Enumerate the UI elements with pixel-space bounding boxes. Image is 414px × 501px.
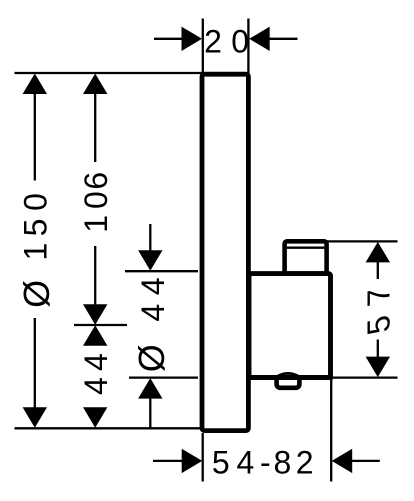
dimension 54-82 [153,445,380,481]
dimension dia44 [131,224,172,428]
valve body [249,274,331,378]
wire tick 106/44 [74,324,127,326]
wire tick dia44 bottom [129,376,198,378]
valve bottom tab [277,377,300,388]
dimension 20 [154,23,298,59]
plate [202,74,248,430]
dimension 57 [361,242,396,377]
dimension dia150 [16,74,57,428]
wire 54-82 right extension [330,374,332,482]
wire bottom extension line [15,427,203,429]
dimension 44 left chain [78,325,114,428]
wire 57-dim bottom extension [332,376,398,378]
valve cap [285,241,327,273]
wire top extension line [15,72,203,74]
valve cap thin line [287,247,325,249]
wire 57-dim top extension [327,240,398,242]
svg-text:54-82: 54-82 [212,445,314,481]
valve body bottom edge over tab [249,375,333,380]
dimension 106 [78,74,114,325]
wire 20-dim right extension [247,19,249,75]
svg-text:106: 106 [78,172,114,233]
svg-text:Ø150: Ø150 [16,193,57,308]
wire tick dia44 top [125,270,198,272]
wire 54-82 left extension [202,433,204,482]
wire 20-dim left extension [202,19,204,75]
valve tab dome [278,373,298,376]
